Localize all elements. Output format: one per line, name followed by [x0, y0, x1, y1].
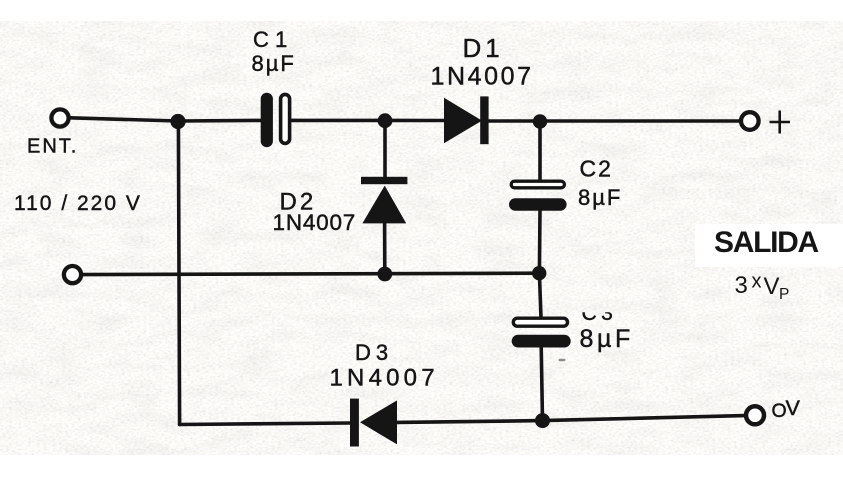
svg-text:P: P — [779, 286, 789, 303]
svg-text:x: x — [752, 271, 762, 293]
svg-text:1N4007: 1N4007 — [330, 365, 439, 392]
svg-text:8µF: 8µF — [252, 51, 296, 76]
svg-text:110 / 220 V: 110 / 220 V — [14, 192, 142, 215]
svg-text:C 1: C 1 — [253, 27, 287, 52]
svg-text:8µF: 8µF — [580, 325, 634, 353]
svg-text:D3: D3 — [355, 340, 393, 365]
svg-text:D1: D1 — [463, 33, 504, 63]
svg-text:1N4007: 1N4007 — [431, 63, 534, 91]
svg-text:3: 3 — [735, 272, 748, 299]
svg-text:SALIDA: SALIDA — [714, 226, 819, 259]
svg-text:C2: C2 — [580, 156, 613, 182]
svg-text:V: V — [786, 397, 804, 420]
svg-text:V: V — [764, 273, 780, 300]
svg-text:1N4007: 1N4007 — [273, 210, 357, 235]
svg-text:ENT.: ENT. — [27, 136, 78, 158]
svg-text:8µF: 8µF — [578, 185, 622, 210]
